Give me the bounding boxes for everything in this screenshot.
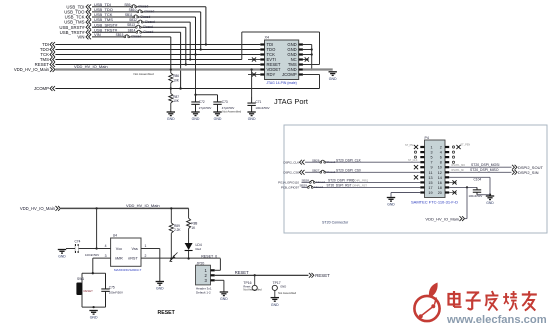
svg-text:RESET: RESET: [315, 273, 330, 278]
svg-text:14: 14: [438, 176, 442, 180]
svg-text:18: 18: [438, 186, 442, 190]
svg-text:C75: C75: [109, 285, 115, 289]
svg-text:VDD_HV_IO_Main: VDD_HV_IO_Main: [74, 64, 108, 69]
svg-text:SB14: SB14: [128, 28, 136, 32]
svg-text:Closed: Closed: [143, 25, 153, 29]
svg-text:ST_PM: ST_PM: [405, 144, 413, 147]
svg-text:17: 17: [428, 186, 432, 190]
svg-text:DR4PL_RST: DR4PL_RST: [353, 185, 368, 188]
svg-text:SB28: SB28: [302, 179, 310, 183]
svg-text:ST_PEN: ST_PEN: [461, 143, 471, 146]
svg-text:SB13: SB13: [127, 23, 135, 27]
svg-text:Red: Red: [196, 247, 202, 251]
svg-text:GND: GND: [486, 201, 494, 205]
svg-text:2: 2: [440, 146, 442, 150]
svg-text:Closed: Closed: [138, 5, 148, 9]
svg-text:PG14_GPIO110: PG14_GPIO110: [278, 181, 299, 185]
svg-text:Closed: Closed: [326, 170, 335, 174]
svg-text:TP16: TP16: [243, 281, 251, 285]
svg-text:ST20_DSPI_MOSI: ST20_DSPI_MOSI: [471, 163, 500, 167]
svg-text:1: 1: [145, 244, 147, 248]
svg-text:GND: GND: [58, 255, 66, 259]
svg-text:Closed: Closed: [145, 20, 155, 24]
svg-text:11: 11: [429, 171, 433, 175]
svg-text:RESET_0: RESET_0: [201, 255, 217, 259]
svg-text:nRST: nRST: [128, 256, 138, 260]
svg-text:16: 16: [438, 181, 442, 185]
svg-text:Closed: Closed: [314, 185, 323, 189]
svg-text:10K: 10K: [173, 99, 180, 103]
svg-text:RSVPL_MO: RSVPL_MO: [452, 164, 466, 167]
svg-text:GND: GND: [248, 117, 256, 121]
svg-text:ST20_DSPI_CLK: ST20_DSPI_CLK: [336, 158, 362, 162]
svg-text:C72: C72: [199, 100, 205, 104]
svg-text:ST20 Connector: ST20 Connector: [322, 221, 349, 225]
svg-text:GND: GND: [90, 316, 98, 320]
svg-text:RESET: RESET: [84, 289, 94, 293]
svg-text:P4: P4: [425, 136, 429, 140]
svg-text:GND: GND: [156, 287, 164, 291]
svg-text:Closed: Closed: [144, 10, 154, 14]
svg-text:SB11: SB11: [125, 13, 133, 17]
svg-text:Closed: Closed: [143, 30, 153, 34]
svg-text:2.2K: 2.2K: [174, 228, 181, 232]
svg-text:GND: GND: [192, 117, 200, 121]
svg-text:C74: C74: [75, 239, 81, 243]
svg-text:SB27: SB27: [312, 168, 320, 172]
svg-text:100nF/50V: 100nF/50V: [255, 106, 269, 110]
svg-text:ST20_DSPI_PIRQ: ST20_DSPI_PIRQ: [328, 179, 355, 183]
svg-text:15: 15: [428, 181, 432, 185]
svg-text:JTAG Port: JTAG Port: [274, 97, 308, 106]
svg-text:19: 19: [428, 191, 432, 195]
svg-text:4: 4: [105, 244, 107, 248]
svg-text:SB15: SB15: [116, 33, 124, 37]
svg-text:Not Assembled: Not Assembled: [243, 288, 262, 292]
svg-text:C71: C71: [255, 100, 261, 104]
svg-text:VDD_HV_IO_Main: VDD_HV_IO_Main: [425, 216, 459, 221]
svg-text:27pF/50V: 27pF/50V: [199, 106, 212, 110]
svg-text:ST20_DSPI_MISO: ST20_DSPI_MISO: [470, 168, 499, 172]
svg-text:GND: GND: [329, 77, 337, 81]
svg-text:Not Assembled: Not Assembled: [222, 109, 241, 113]
svg-text:GND: GND: [220, 297, 228, 301]
svg-text:8: 8: [440, 161, 442, 165]
svg-text:nMR: nMR: [115, 256, 123, 260]
svg-text:PCB_GPIO97: PCB_GPIO97: [281, 186, 299, 190]
svg-text:100nF/50V: 100nF/50V: [85, 253, 99, 257]
svg-text:X4: X4: [265, 36, 270, 40]
svg-text:SB29: SB29: [300, 184, 308, 188]
svg-text:SB12: SB12: [129, 18, 137, 22]
svg-text:Closed: Closed: [140, 15, 150, 19]
svg-text:Vss: Vss: [131, 247, 137, 251]
svg-text:Vcc: Vcc: [116, 247, 122, 251]
svg-text:6: 6: [440, 156, 442, 160]
svg-text:3: 3: [430, 151, 432, 155]
svg-text:ST20_DSPI_RST: ST20_DSPI_RST: [327, 184, 352, 188]
svg-text:VDD_HV_IO_Main: VDD_HV_IO_Main: [14, 67, 50, 72]
svg-text:DSPI2_SIN: DSPI2_SIN: [518, 170, 539, 175]
svg-text:VIN: VIN: [77, 35, 84, 40]
svg-text:3: 3: [105, 254, 107, 258]
svg-text:Not Assembled: Not Assembled: [278, 291, 297, 295]
svg-text:20: 20: [438, 191, 442, 195]
svg-text:VDD_HV_IO_Main: VDD_HV_IO_Main: [126, 203, 160, 208]
svg-text:GND: GND: [387, 203, 395, 207]
svg-text:SW1: SW1: [77, 277, 84, 281]
svg-text:5: 5: [430, 156, 432, 160]
svg-text:100nF/50V: 100nF/50V: [469, 194, 483, 198]
svg-text:SB9: SB9: [124, 3, 130, 7]
svg-text:1: 1: [430, 146, 432, 150]
svg-text:VIN: VIN: [94, 32, 101, 37]
svg-text:JCOMP: JCOMP: [282, 72, 297, 77]
svg-text:10K: 10K: [173, 78, 180, 82]
svg-text:Not Assembled: Not Assembled: [134, 72, 155, 76]
svg-text:DSPI2_CS0: DSPI2_CS0: [283, 171, 299, 175]
svg-text:JP20: JP20: [197, 261, 205, 265]
svg-text:ST_CLK: ST_CLK: [408, 159, 418, 162]
svg-text:TP17: TP17: [273, 281, 281, 285]
svg-text:Closed: Closed: [326, 160, 335, 164]
svg-text:SB26: SB26: [312, 158, 320, 162]
svg-text:RSVPL_MI: RSVPL_MI: [452, 169, 465, 172]
svg-text:12: 12: [438, 171, 442, 175]
svg-text:ST20_DSPI_CS0: ST20_DSPI_CS0: [336, 169, 361, 173]
svg-text:100nF/50V: 100nF/50V: [109, 291, 123, 295]
svg-text:GND: GND: [271, 303, 279, 307]
svg-text:C73: C73: [222, 100, 228, 104]
svg-text:GND: GND: [280, 285, 286, 289]
svg-text:RDY: RDY: [267, 72, 276, 77]
svg-text:7: 7: [430, 161, 432, 165]
svg-text:SB10: SB10: [129, 8, 137, 12]
svg-text:10: 10: [438, 166, 442, 170]
svg-text:GND: GND: [167, 117, 175, 121]
svg-text:DC4PL_PIRQ: DC4PL_PIRQ: [353, 180, 369, 183]
svg-text:SAMTEC FTC-110-31-F-D: SAMTEC FTC-110-31-F-D: [411, 200, 458, 205]
svg-text:C104: C104: [474, 178, 482, 182]
svg-text:Default 1-2: Default 1-2: [196, 290, 211, 294]
svg-text:MAX6315US29D3-T: MAX6315US29D3-T: [114, 268, 142, 272]
svg-text:Closed: Closed: [131, 35, 141, 39]
svg-text:VDD_HV_IO_Main: VDD_HV_IO_Main: [20, 206, 56, 211]
svg-text:9: 9: [430, 166, 432, 170]
svg-text:2: 2: [145, 254, 147, 258]
svg-text:JTAG 14-PIN (male): JTAG 14-PIN (male): [266, 81, 296, 85]
svg-text:JCOMP: JCOMP: [34, 86, 49, 91]
svg-text:RESET: RESET: [158, 310, 176, 316]
svg-text:Closed: Closed: [316, 180, 325, 184]
svg-text:RESET: RESET: [235, 270, 249, 275]
svg-text:13: 13: [428, 176, 432, 180]
svg-text:GND: GND: [214, 117, 222, 121]
svg-text:4: 4: [440, 151, 442, 155]
svg-text:www.elecfans.com: www.elecfans.com: [446, 314, 547, 326]
svg-text:U4: U4: [113, 234, 117, 238]
svg-text:DSPI2_CLK: DSPI2_CLK: [283, 161, 299, 165]
